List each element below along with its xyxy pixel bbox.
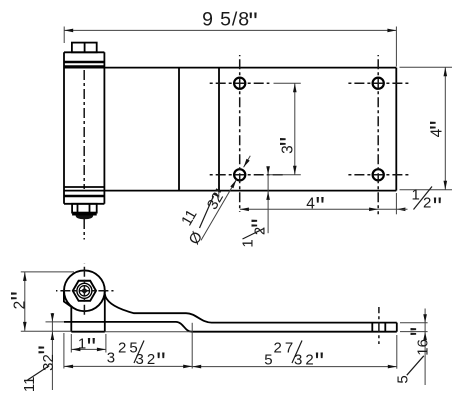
- dimension 1/2 right line tail: [378, 208, 407, 210]
- dimension 5 27/32 extension right: [396, 335, 398, 369]
- svg-text:": ": [87, 332, 96, 362]
- hole top-left: [234, 78, 245, 89]
- svg-text:5: 5: [264, 351, 272, 368]
- hole bottom-right: [373, 169, 384, 180]
- dimension 3 arrow top: [293, 83, 297, 92]
- hinge barrel body: [63, 52, 65, 204]
- svg-text:32: 32: [40, 354, 57, 371]
- dimension 3 line: [294, 83, 296, 175]
- dimension 2 arrow top: [23, 272, 27, 281]
- dimension 11/32 line: [51, 313, 53, 390]
- hinge plate bottom edge: [64, 190, 396, 192]
- hole centerline column right: [377, 55, 379, 214]
- dimension 11/32 text: [21, 345, 62, 392]
- dimension 1/2 right arrow (outside): [396, 208, 405, 212]
- hole crosshair top-right: [348, 82, 410, 84]
- svg-text:5: 5: [395, 375, 412, 383]
- dimension 4 bottom line: [240, 208, 378, 210]
- svg-text:": ": [249, 6, 258, 36]
- dimension 11/32 arrow bottom: [51, 332, 55, 341]
- dimension 9 5/8 arrow right: [387, 29, 396, 33]
- dimension 4 right extension top: [400, 66, 453, 68]
- strap hole edge left: [371, 323, 373, 332]
- leader diameter 11/32 line: [201, 180, 236, 241]
- svg-text:2: 2: [11, 301, 28, 310]
- plate bend line 2: [218, 68, 220, 191]
- dimension 1 extension left: [70, 334, 72, 353]
- dimension 3 extension bottom: [270, 174, 301, 176]
- dimension 3 25/32 extension left: [63, 333, 65, 369]
- dimension 1/2 vertical arrow bottom: [266, 191, 270, 200]
- plate bend line 1: [178, 68, 180, 191]
- dimension 5 27/32 line: [192, 366, 397, 368]
- dimension 3 25/32 text: [107, 339, 166, 376]
- strap right end edge: [396, 323, 398, 332]
- dimension 11/32 arrow top: [51, 313, 55, 322]
- dimension 1 extension right: [105, 334, 107, 353]
- dimension 9 5/8 arrow left: [64, 29, 73, 33]
- dimension 4 right line: [444, 67, 446, 190]
- barrel top lower line: [64, 65, 104, 67]
- svg-text:": ": [274, 137, 304, 146]
- knuckle circle: [64, 270, 105, 311]
- hinge plate right edge: [395, 68, 397, 191]
- hole crosshair bottom-right: [348, 174, 410, 176]
- svg-text:2: 2: [423, 195, 431, 212]
- strap bottom edge left: [46, 321, 65, 323]
- dimension 2 arrow bottom: [23, 322, 27, 331]
- dimension 5/16 text: [395, 327, 435, 384]
- svg-text:1: 1: [78, 335, 86, 352]
- dimension 2 extension top: [21, 271, 74, 273]
- dimension 4 right extension bottom: [400, 189, 453, 191]
- leader diameter 11/32 arrow low: [230, 180, 236, 189]
- hole bottom-left: [234, 169, 245, 180]
- barrel top cap thick line: [64, 61, 104, 64]
- svg-text:3: 3: [107, 349, 115, 366]
- strap bottom edge right: [192, 331, 397, 333]
- leader diameter 11/32 arrow high: [244, 159, 250, 167]
- plate bend extension below: [218, 191, 220, 197]
- svg-text:": ": [32, 345, 62, 354]
- dimension 4 bottom arrow right: [369, 208, 378, 212]
- pin circle outer: [77, 283, 92, 298]
- svg-text:1: 1: [412, 187, 420, 204]
- svg-text:32: 32: [136, 351, 159, 368]
- svg-text:": ": [315, 346, 324, 376]
- barrel bottom cap thick line: [64, 195, 104, 198]
- dimension 3 25/32 extension right: [191, 323, 193, 369]
- knuckle crosshair horizontal: [56, 290, 114, 292]
- hole crosshair bottom-left: [210, 174, 285, 176]
- plate right edge extension below: [395, 193, 397, 214]
- dimension 4 bottom arrow left: [240, 208, 249, 212]
- dimension 5/16 extension bottom: [400, 331, 428, 333]
- hole top-right: [373, 78, 384, 89]
- leader diameter 11/32 tail: [244, 156, 251, 167]
- svg-text:": ": [316, 191, 325, 221]
- svg-text:": ": [5, 291, 35, 300]
- dimension 3 25/32 arrow right: [183, 365, 192, 369]
- hole centerline column left: [239, 55, 241, 212]
- dimension 1/2 vertical text: [240, 219, 276, 248]
- hex nut: [73, 281, 96, 301]
- dimension 1 arrow right: [97, 348, 106, 352]
- dimension 3 extension top: [274, 82, 301, 84]
- dimension 9 5/8 line: [64, 29, 396, 31]
- barrel bottom nut thick base: [72, 213, 97, 216]
- dimension 4 right arrow bottom: [444, 181, 448, 190]
- dimension 1/2 right text: [412, 187, 443, 222]
- svg-text:": ": [405, 327, 435, 336]
- barrel bottom nut: [72, 204, 97, 213]
- svg-text:9 5/8: 9 5/8: [202, 9, 250, 31]
- diameter 11/32 text: [178, 184, 238, 247]
- dimension 5 27/32 arrow left: [192, 365, 201, 369]
- svg-text:": ": [156, 346, 165, 376]
- svg-text:": ": [433, 191, 442, 221]
- foot base: [71, 331, 105, 333]
- dimension 5/16 extension top: [400, 322, 428, 324]
- dimension 1 arrow left: [71, 348, 80, 352]
- barrel bottom acorn dome: [76, 215, 94, 219]
- svg-text:": ": [424, 121, 454, 130]
- side outline left edge: [64, 291, 71, 332]
- svg-text:1: 1: [240, 239, 257, 247]
- dimension 5/16 arrow bottom: [423, 332, 427, 341]
- pin circle inner: [79, 286, 89, 296]
- dimension 1 line: [71, 348, 106, 350]
- dimension 5 27/32 arrow right: [388, 365, 397, 369]
- dimension 3 25/32 arrow left: [64, 365, 73, 369]
- dimension 5 27/32 text: [264, 339, 324, 376]
- hole crosshair top-left: [210, 82, 270, 84]
- foot right edge: [104, 291, 106, 332]
- strap top edge: [105, 294, 397, 323]
- dimension 2 line: [24, 272, 26, 331]
- barrel centerline: [83, 70, 85, 189]
- dimension 9 5/8 extension right: [395, 27, 397, 67]
- dimension 4 right arrow top: [444, 67, 448, 76]
- center mark diamond: [81, 288, 89, 294]
- dimension 5/16 line: [424, 309, 426, 386]
- barrel lower inner line: [64, 186, 104, 188]
- dimension 1/2 vertical arrow top: [266, 166, 270, 175]
- base plane line light: [21, 330, 72, 332]
- dimension 5/16 arrow top: [423, 314, 427, 323]
- dimension 3 arrow bottom: [293, 166, 297, 175]
- hinge plate top edge: [64, 67, 396, 69]
- knuckle crosshair vertical: [83, 264, 85, 318]
- dimension 1/2 vertical line: [267, 167, 269, 234]
- svg-text:32: 32: [294, 351, 317, 368]
- dimension 9 5/8 extension left: [63, 27, 65, 44]
- barrel bottom cap edge: [64, 203, 104, 205]
- svg-text:16: 16: [414, 339, 431, 356]
- strap hole centerline: [378, 307, 380, 344]
- svg-text:27: 27: [274, 339, 297, 356]
- svg-text:": ": [246, 219, 276, 228]
- barrel top cap nut: [72, 43, 97, 53]
- dimension 3 25/32 line: [64, 365, 192, 367]
- svg-text:4: 4: [306, 195, 315, 212]
- strap hole edge right: [384, 323, 386, 332]
